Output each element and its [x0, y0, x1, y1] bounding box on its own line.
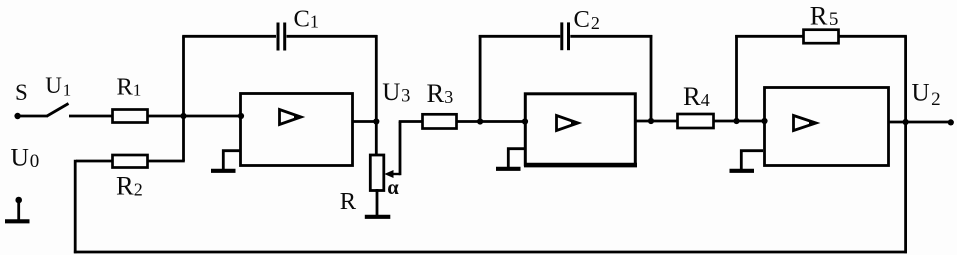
label U0: [11, 143, 40, 173]
resistor R4: [678, 114, 714, 128]
svg-text:R1: R1: [117, 74, 142, 101]
wire: R3 to op-amp U2A input: [457, 120, 526, 123]
wire: C2 top right run: [570, 35, 652, 38]
op-amp U1A box: [241, 94, 353, 166]
wire: C1 top right run: [287, 35, 378, 38]
ground: op-amp U1A non-inverting input: [211, 151, 240, 171]
capacitor C1 plates: [278, 23, 285, 51]
wire: vertical from C1 left plate down to R2: [182, 36, 185, 161]
node: op-amp U1A input dot: [238, 113, 244, 119]
switch S blade: [47, 104, 69, 117]
wire: op-amp U2A output to R4: [636, 120, 679, 123]
node U3 junction dot: [373, 118, 379, 124]
wire: switch to R1: [69, 115, 113, 118]
wire: R1 to op-amp U1A input: [147, 115, 241, 118]
svg-text:U0: U0: [11, 143, 40, 173]
op-amp U2A box: [524, 94, 637, 165]
label R3: [427, 78, 454, 108]
label S: [15, 80, 28, 105]
node: summing junction 3 (dot): [733, 118, 739, 124]
wire: switch left lead: [18, 115, 48, 118]
node: output junction dot (feedback tap): [903, 119, 909, 125]
node: U2 output terminal dot: [948, 119, 954, 125]
op-amp U3A triangle: [794, 116, 818, 131]
label C1: [294, 5, 319, 32]
wire: R4 to op-amp U3A input: [714, 120, 766, 123]
svg-text:R2: R2: [116, 171, 143, 201]
ground: potentiometer bottom: [365, 189, 391, 217]
label R5: [810, 1, 839, 31]
wire: feedback right vertical / R5 right drop: [904, 36, 907, 253]
svg-text:C1: C1: [294, 5, 319, 32]
U0 source terminal (dot, stem, bar): [5, 197, 30, 222]
resistor R1: [113, 110, 148, 123]
resistor R5: [804, 30, 839, 44]
svg-text:S: S: [15, 80, 28, 105]
svg-text:C2: C2: [574, 6, 600, 33]
potentiometer R body: [370, 155, 384, 191]
wire: C1 top left run: [182, 35, 276, 38]
label α (wiper): [387, 177, 399, 199]
node: summing junction 1 (dot): [180, 113, 186, 119]
node: op-amp U2A output junction dot: [648, 118, 654, 124]
label C2: [574, 6, 600, 33]
op-amp U3A box: [765, 88, 889, 166]
op-amp U1A triangle: [280, 110, 303, 125]
node: summing junction 2 (dot): [477, 118, 483, 124]
wire: R5 top right run: [839, 35, 907, 38]
label R (potentiometer): [340, 188, 357, 215]
label U2: [912, 80, 941, 110]
label U1: [45, 73, 71, 100]
ground: op-amp U3A non-inverting input: [730, 151, 764, 171]
wire: R2 left lead: [76, 160, 113, 163]
switch S terminal dot: [14, 113, 20, 119]
wire: C1 right vertical down to pot: [375, 35, 378, 156]
wire: C2 left vertical: [479, 35, 482, 122]
svg-text:U1: U1: [45, 73, 71, 100]
wire: R5 left vertical: [735, 35, 738, 121]
wire: op-amp U3A output to U2 terminal: [888, 121, 952, 124]
svg-text:α: α: [387, 177, 399, 199]
wire: wiper vertical up: [399, 122, 402, 176]
wire: C2 top left run: [479, 35, 561, 38]
wire: op-amp U1A output: [353, 120, 378, 123]
wire: R2 right lead to vertical: [147, 160, 185, 163]
svg-text:R4: R4: [683, 81, 710, 111]
svg-text:R: R: [340, 188, 357, 215]
op-amp U2A triangle: [557, 116, 580, 131]
node: op-amp U3A input dot: [761, 118, 767, 124]
svg-text:R3: R3: [427, 78, 454, 108]
wire: feedback left vertical: [74, 160, 77, 254]
svg-text:U2: U2: [912, 80, 941, 110]
label U3: [382, 79, 410, 107]
label R1: [117, 74, 142, 101]
svg-text:U3: U3: [382, 79, 410, 107]
label R4: [683, 81, 710, 111]
node: op-amp U2A input dot: [522, 118, 528, 124]
potentiometer wiper arrow: [384, 170, 400, 178]
ground: op-amp U2A non-inverting input: [496, 149, 524, 169]
wire: C2 right vertical: [650, 35, 653, 121]
svg-text:R5: R5: [810, 1, 839, 31]
resistor R2: [113, 155, 148, 168]
wire: wiper to R3: [399, 120, 423, 123]
resistor R3: [423, 114, 457, 128]
capacitor C2 plates: [562, 22, 569, 50]
wire: R5 top left run: [735, 35, 804, 38]
wire: feedback bottom run: [74, 251, 907, 254]
label R2: [116, 171, 143, 201]
